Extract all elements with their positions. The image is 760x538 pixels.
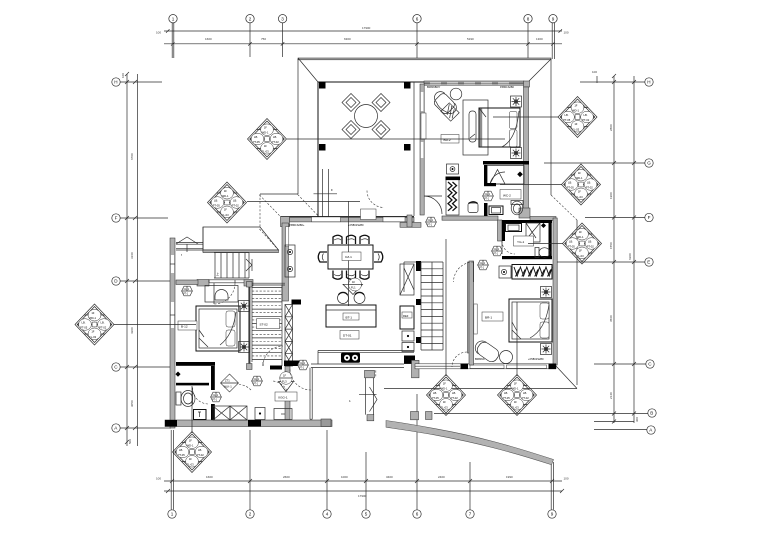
svg-text:F: F xyxy=(115,216,118,221)
small appliance 1 xyxy=(402,331,414,341)
svg-text:BR-1: BR-1 xyxy=(485,316,492,320)
svg-text:B: B xyxy=(650,411,653,416)
entry wall right block xyxy=(244,280,253,287)
svg-text:+F5801S280: +F5801S280 xyxy=(348,223,364,227)
master bath label xyxy=(514,236,534,246)
svg-text:1: 1 xyxy=(349,399,351,403)
corridor lower wall segment A xyxy=(285,366,290,382)
svg-text:+F5801S280: +F5801S280 xyxy=(528,357,544,361)
svg-text:3: 3 xyxy=(281,16,284,21)
grid bubble 1 bottom xyxy=(168,430,176,518)
svg-text:9: 9 xyxy=(552,16,555,21)
finish tag cluster C5 xyxy=(427,375,466,416)
bedroom2 top window wall xyxy=(424,81,524,85)
kitchen counter line xyxy=(318,351,414,365)
svg-text:100: 100 xyxy=(156,477,161,481)
porch pillar lower xyxy=(411,412,419,420)
svg-text:H: H xyxy=(647,80,650,85)
grid bubble 1 top xyxy=(169,15,177,59)
grid bubble 9 top xyxy=(549,15,557,60)
master wardrobe xyxy=(512,265,552,280)
terrace chair SW xyxy=(342,121,360,139)
suite makeup chair xyxy=(468,202,478,213)
GRID_TOP xyxy=(156,15,569,61)
master bath vanity xyxy=(506,224,522,232)
svg-text:2: 2 xyxy=(249,16,252,21)
svg-text:9: 9 xyxy=(551,512,554,517)
grid bubble 4 bottom xyxy=(323,430,331,518)
svg-text:2400: 2400 xyxy=(438,475,445,479)
dining chairs bottom xyxy=(333,271,369,280)
GRID_BOTTOM xyxy=(156,394,569,518)
folding door wall living top xyxy=(281,217,415,222)
finish tag cluster C7 xyxy=(558,97,597,138)
dining chairs top xyxy=(333,235,369,244)
stair2 treads xyxy=(404,262,443,350)
entry wall left block xyxy=(197,280,209,287)
hex tag hallway2 xyxy=(478,260,489,270)
ROOF xyxy=(260,58,578,389)
master bath shower xyxy=(526,223,540,242)
leader C2 xyxy=(247,201,360,203)
parapet double wall xyxy=(176,227,203,252)
stool 2 xyxy=(354,292,365,303)
hex tag hallway1 xyxy=(492,246,503,256)
leader C4 xyxy=(191,386,193,433)
diamond tag corridor1 xyxy=(221,374,239,392)
master side table xyxy=(500,351,513,364)
column terrace SW xyxy=(319,144,326,151)
island label box xyxy=(340,331,359,340)
svg-text:B0806BDY: B0806BDY xyxy=(427,85,441,89)
roof overhang right lower xyxy=(576,220,578,385)
bedroom2 nightstand flower top xyxy=(511,96,522,107)
master bedroom left wall xyxy=(469,261,474,365)
bath2 vanity xyxy=(489,206,503,215)
terrace step lines xyxy=(314,169,338,217)
bedroom2 blanket xyxy=(479,108,519,147)
grid bubble 6 bottom xyxy=(413,394,421,518)
foyer right wall xyxy=(310,368,312,420)
living left wall xyxy=(282,223,289,301)
terrace chair NE xyxy=(372,94,390,112)
svg-text:F5801S280: F5801S280 xyxy=(500,85,514,89)
master bath top wall xyxy=(502,220,552,223)
MASTER SUITE xyxy=(289,85,552,364)
bath3 right wall lower xyxy=(211,404,215,420)
svg-text:6: 6 xyxy=(416,16,419,21)
bath3 dot xyxy=(175,372,180,377)
grid bubble C left xyxy=(112,363,171,371)
washer box 2 xyxy=(230,406,247,420)
grid bubble B right xyxy=(434,409,656,417)
svg-text:6: 6 xyxy=(416,512,419,517)
right grid double vertical xyxy=(613,76,615,423)
tall cabinet xyxy=(400,264,414,295)
bedroom2 ottoman xyxy=(441,103,459,121)
hex tag stair2 xyxy=(426,217,437,227)
svg-text:17900: 17900 xyxy=(362,26,371,30)
bottom dimension line upper xyxy=(164,480,562,482)
master pillows xyxy=(540,303,549,319)
grid bubble F left xyxy=(112,214,168,222)
svg-text:3560: 3560 xyxy=(609,315,613,322)
T wall at stair2 xyxy=(400,223,421,228)
grid bubble 3 top xyxy=(278,15,286,58)
bedroom2 nightstand flower bottom xyxy=(511,148,522,159)
svg-text:1300: 1300 xyxy=(536,37,543,41)
svg-text:F5801S280+: F5801S280+ xyxy=(289,223,305,227)
leader C8 xyxy=(500,184,562,186)
svg-text:1F: 1F xyxy=(283,374,286,378)
grid bubble F right xyxy=(585,213,653,221)
shaft black stub xyxy=(292,300,302,305)
svg-text:1: 1 xyxy=(171,512,174,517)
grid bubble 6 top xyxy=(413,15,421,59)
finish tag cluster C3 xyxy=(75,304,114,345)
svg-text:5190: 5190 xyxy=(467,37,474,41)
bedroom2 bed platform xyxy=(463,100,488,155)
leader C3 xyxy=(114,324,196,326)
bedroom3 bed frame xyxy=(196,306,240,351)
bath2 inner black stub xyxy=(484,203,488,216)
section tag corridor3 xyxy=(279,372,294,392)
svg-text:100: 100 xyxy=(121,73,125,78)
svg-text:4: 4 xyxy=(326,512,329,517)
svg-text:上: 上 xyxy=(216,271,219,276)
canopy outline xyxy=(203,227,279,250)
bedroom2 TV board xyxy=(421,113,426,139)
stair2 black stub2 xyxy=(416,337,421,343)
shaft x-brace xyxy=(285,305,293,367)
grid bubble C right xyxy=(594,360,654,368)
grid bubble 7 bottom xyxy=(466,462,474,518)
master bath right wall xyxy=(549,220,552,259)
entry exterior steps xyxy=(214,253,252,279)
leader C1 xyxy=(287,138,505,140)
finish tag cluster C2 xyxy=(208,182,247,223)
bedroom2 label xyxy=(441,135,459,144)
svg-text:2140: 2140 xyxy=(609,392,613,399)
svg-text:100: 100 xyxy=(156,31,161,35)
hallway wall vertical xyxy=(498,220,502,241)
grid bubble 2 bottom xyxy=(246,430,254,518)
bottom tick marks xyxy=(166,479,564,493)
svg-text:2: 2 xyxy=(249,512,252,517)
living top-left column xyxy=(281,217,290,227)
column terrace SE xyxy=(404,144,411,151)
bath2 corner dot xyxy=(517,172,523,178)
svg-text:ZT1: ZT1 xyxy=(225,379,230,383)
finish tag cluster C4 xyxy=(173,432,212,473)
hex tag corridor2 xyxy=(252,376,263,386)
shoe cabinet 1 xyxy=(255,408,265,420)
cooktop xyxy=(341,353,360,363)
svg-text:H: H xyxy=(114,80,117,85)
grid bubble 5 bottom xyxy=(362,452,370,518)
bedroom3 desk xyxy=(205,286,238,303)
terrace inner edge top xyxy=(318,81,424,83)
master bath door arc xyxy=(502,241,515,254)
grid bubble 9 bottom xyxy=(548,462,556,518)
corridor door arc to dining xyxy=(272,381,289,398)
bath2 tub room xyxy=(487,166,524,185)
svg-text:FL1: FL1 xyxy=(351,286,356,290)
svg-text:17900: 17900 xyxy=(358,494,367,498)
entry threshold xyxy=(209,280,246,283)
stair1 door arc xyxy=(263,346,283,366)
master bath bottom wall xyxy=(502,256,552,259)
svg-text:DT-01: DT-01 xyxy=(343,334,352,338)
dining floor tag xyxy=(343,278,363,295)
bedroom2 wardrobe xyxy=(446,177,461,216)
terrace edge right xyxy=(413,82,415,216)
svg-text:100: 100 xyxy=(564,477,569,481)
roof edge left xyxy=(297,59,299,194)
master chair xyxy=(473,338,502,364)
svg-text:1550: 1550 xyxy=(609,242,613,249)
roof overhang bottom xyxy=(384,388,577,390)
left grid double vertical xyxy=(126,74,128,446)
svg-text:1F: 1F xyxy=(352,280,355,284)
grid bubble E right xyxy=(556,258,653,266)
bath3 door arc xyxy=(192,388,208,405)
fridge xyxy=(400,306,414,329)
dining chair left xyxy=(318,252,327,262)
svg-text:WC-2: WC-2 xyxy=(503,193,511,197)
column terrace NW xyxy=(319,82,326,89)
roof return lower-left xyxy=(260,193,298,195)
bedroom2 foot bench xyxy=(469,111,476,142)
foyer label box xyxy=(275,392,297,401)
master bath dot xyxy=(541,223,546,228)
bedroom3 top wall xyxy=(176,280,198,285)
miter living corner xyxy=(298,195,318,216)
master suite step corner xyxy=(519,208,530,218)
bath2 label xyxy=(500,190,521,200)
terrace chair SE xyxy=(372,121,390,139)
console cabinet xyxy=(274,409,292,420)
top dimension line lower xyxy=(164,43,562,45)
BEDROOM2 SUITE xyxy=(424,88,524,215)
svg-text:100: 100 xyxy=(564,31,569,35)
right tick marks xyxy=(612,74,636,424)
left tick marks xyxy=(125,72,137,444)
bath2 bottom black stub xyxy=(484,183,496,186)
terrace step block xyxy=(361,209,377,220)
bedroom3 pillows xyxy=(226,311,235,327)
WALLS xyxy=(165,81,557,428)
svg-text:2600: 2600 xyxy=(283,475,290,479)
svg-text:5: 5 xyxy=(365,512,368,517)
grid bubble D left xyxy=(112,277,171,285)
roof edge top xyxy=(298,58,551,60)
svg-text:f: f xyxy=(181,253,182,257)
master cube shelf xyxy=(499,266,511,278)
svg-text:1600: 1600 xyxy=(205,37,212,41)
miter right step xyxy=(551,195,577,220)
bedroom2 right wall xyxy=(524,87,529,212)
bottom dimension line lower xyxy=(164,490,562,492)
corridor lower wall segment B xyxy=(285,398,290,422)
master bath left wall upper xyxy=(502,220,505,241)
bath2 black divider xyxy=(483,161,529,165)
canopy miter xyxy=(260,229,279,250)
bedroom3/stair wall xyxy=(248,283,250,366)
porch pillar upper xyxy=(412,360,420,378)
finish tag cluster C1 xyxy=(248,119,287,160)
porch step line xyxy=(359,393,377,395)
svg-text:6700: 6700 xyxy=(130,153,134,160)
master blanket xyxy=(512,305,549,339)
canopy drip bar xyxy=(203,250,279,253)
svg-text:B-12: B-12 xyxy=(181,324,188,328)
porch wall xyxy=(365,370,378,420)
svg-text:REF: REF xyxy=(403,314,409,318)
finish tag cluster C6 xyxy=(498,375,537,416)
svg-text:F: F xyxy=(331,188,333,192)
grid bubble H right xyxy=(580,78,653,86)
svg-text:BR-2: BR-2 xyxy=(444,138,451,142)
hex tag corridor4 xyxy=(298,360,309,370)
bath3 toilet xyxy=(176,391,195,407)
svg-text:8: 8 xyxy=(527,16,530,21)
master right wall xyxy=(553,218,557,365)
bedroom2 mattress xyxy=(479,108,520,147)
bedroom2 side table xyxy=(450,88,462,100)
leader C6 xyxy=(516,302,518,376)
bottom wall kitchen row xyxy=(415,364,556,370)
miter canopy xyxy=(260,195,281,217)
grid bubble H left xyxy=(112,78,162,86)
svg-text:1000: 1000 xyxy=(341,475,348,479)
svg-text:FL3: FL3 xyxy=(282,379,287,383)
window flap mark xyxy=(176,237,198,252)
svg-text:B0806A: B0806A xyxy=(475,357,485,361)
svg-text:CZ-1: CZ-1 xyxy=(345,255,352,259)
svg-text:WLK-1: WLK-1 xyxy=(224,385,233,389)
leader C9 xyxy=(528,243,563,245)
bath2 left black wall xyxy=(484,165,487,186)
master bath toilet xyxy=(535,248,550,258)
svg-text:100: 100 xyxy=(592,70,597,74)
column terrace NE xyxy=(404,82,411,89)
bedroom3 nightstand flower top xyxy=(239,301,250,312)
foyer entry door arc xyxy=(290,369,311,390)
driveway path xyxy=(386,421,554,465)
bedroom2 left wall xyxy=(420,84,424,215)
finish tag cluster C8 xyxy=(562,164,601,205)
terrace round table xyxy=(355,105,378,128)
grid bubble 8 top xyxy=(524,15,532,61)
entry door arc xyxy=(214,283,235,304)
grid bubble A right xyxy=(594,422,655,435)
svg-text:750: 750 xyxy=(261,37,266,41)
dining table label xyxy=(342,252,361,261)
hex tag bedroom3 xyxy=(182,286,193,296)
bottom wall A row left xyxy=(165,419,332,427)
stair1 interior treads xyxy=(247,282,301,370)
master mirror xyxy=(474,304,477,334)
suite door arc xyxy=(424,196,442,214)
miter top-right xyxy=(529,59,551,81)
svg-text:ST-02: ST-02 xyxy=(260,323,269,327)
grid bubble A left xyxy=(112,424,171,432)
svg-text:1900: 1900 xyxy=(609,192,613,199)
miter bottom-right xyxy=(556,366,577,389)
stair2 black stub1 xyxy=(416,299,421,305)
top tick marks xyxy=(166,29,562,45)
bath3 right wall upper xyxy=(211,366,215,390)
svg-text:300: 300 xyxy=(635,417,639,422)
master bed xyxy=(509,299,552,342)
ROOMS xyxy=(175,94,443,421)
GRID_LEFT xyxy=(112,72,171,446)
svg-text:7: 7 xyxy=(469,512,472,517)
svg-text:500: 500 xyxy=(128,439,132,444)
bedroom3 blanket fold xyxy=(199,312,236,347)
bath3 inner partition xyxy=(176,383,209,386)
svg-text:3160: 3160 xyxy=(130,252,134,259)
finish tag cluster C9 xyxy=(563,223,602,264)
svg-text:BT-1: BT-1 xyxy=(346,315,353,319)
svg-text:6300: 6300 xyxy=(628,253,632,260)
bedroom3 label xyxy=(178,321,197,330)
kitchen right wall xyxy=(468,262,473,353)
GRID_RIGHT xyxy=(434,70,656,434)
kitchen wall black end xyxy=(404,356,415,364)
dining table xyxy=(328,245,373,269)
svg-text:1990: 1990 xyxy=(506,475,513,479)
kitchen bottom wall left segment xyxy=(311,364,404,368)
hallway door arc xyxy=(454,262,474,282)
corridor door arc small xyxy=(239,385,251,391)
hex tag suite bath xyxy=(483,191,494,201)
terrace inner edge left xyxy=(317,82,319,217)
bedroom3 nightstand flower bottom xyxy=(239,342,250,353)
porch pillar corner xyxy=(426,412,433,420)
kitchen door arc xyxy=(452,352,467,367)
washer box 1 xyxy=(213,406,230,420)
svg-text:3050: 3050 xyxy=(130,400,134,407)
svg-text:3400: 3400 xyxy=(386,475,393,479)
master nightstand top xyxy=(541,287,552,298)
dotted canopy edge xyxy=(259,194,261,227)
leader C5 xyxy=(445,239,447,376)
bedroom2 pillows xyxy=(510,112,518,129)
roof edge right xyxy=(550,59,552,195)
svg-text:1: 1 xyxy=(172,16,175,21)
top dimension line upper xyxy=(164,30,562,32)
bedroom2 armchair xyxy=(430,89,459,118)
svg-text:YG-1: YG-1 xyxy=(517,240,525,244)
svg-text:F: F xyxy=(648,215,651,220)
main left wall xyxy=(170,238,175,428)
master label xyxy=(482,312,503,321)
left av cabinet xyxy=(285,245,295,277)
svg-text:E: E xyxy=(647,260,650,265)
miter top-left xyxy=(298,58,318,82)
MARKERS xyxy=(75,97,602,473)
hex tag bath3 xyxy=(211,392,222,402)
stair2 rail black top xyxy=(416,261,421,271)
grid bubble G right xyxy=(544,159,653,167)
leader C7 xyxy=(493,116,558,118)
small appliance 2 xyxy=(402,343,414,352)
svg-text:2800: 2800 xyxy=(609,124,613,131)
svg-text:4300: 4300 xyxy=(130,327,134,334)
svg-text:1600: 1600 xyxy=(206,475,213,479)
